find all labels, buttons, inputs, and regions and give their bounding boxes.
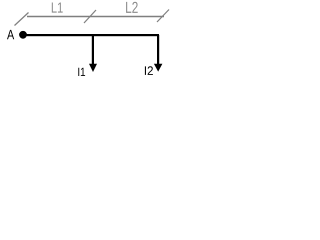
middle tick slash — [84, 10, 96, 23]
node A dot — [19, 31, 27, 39]
dimension line L1-L2 — [27, 16, 164, 18]
label I1 — [78, 68, 85, 76]
wire main horizontal — [23, 34, 159, 36]
label L2 — [126, 2, 138, 13]
arrowhead I1 — [89, 64, 97, 72]
wire branch 1 vertical — [92, 35, 94, 65]
arrowhead I2 — [154, 64, 163, 72]
left tick slash — [15, 13, 29, 26]
wire branch 2 vertical — [157, 35, 159, 65]
node A label — [7, 30, 14, 39]
label I2 — [145, 66, 153, 75]
label L1 — [52, 3, 63, 13]
right tick slash — [157, 10, 169, 23]
